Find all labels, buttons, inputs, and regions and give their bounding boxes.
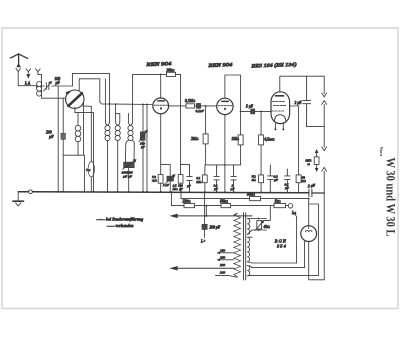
svg-text:200 µF: 200 µF xyxy=(210,226,221,230)
row: cap 0.1uF xyxy=(214,165,219,192)
node dot heater xyxy=(205,215,207,217)
resistor 220 xyxy=(184,204,195,208)
hum pot dots xyxy=(258,218,260,220)
svg-text:REN 904: REN 904 xyxy=(207,63,233,69)
bus connector circle xyxy=(29,190,33,194)
secondary heater winding xyxy=(247,219,252,235)
row: cap 0.2uF xyxy=(268,165,273,192)
antenna jack A xyxy=(16,68,21,71)
V3 grid dashes mid xyxy=(274,105,286,107)
V2 anode loop xyxy=(225,75,241,111)
wire jog below tuner xyxy=(63,155,84,192)
dot coupling node xyxy=(142,104,144,106)
svg-text:1MΩ: 1MΩ xyxy=(232,137,240,141)
wire pot to bus xyxy=(128,168,130,192)
tap 220 long arrow xyxy=(176,267,233,269)
svg-text:1kΩ: 1kΩ xyxy=(275,200,281,204)
svg-text:Nora: Nora xyxy=(379,147,384,157)
node dot xyxy=(240,111,242,113)
svg-text:2 µF: 2 µF xyxy=(295,101,303,105)
lamp cap 200uF xyxy=(204,192,206,237)
ground symbol xyxy=(17,192,19,201)
resistor 1k xyxy=(274,204,286,208)
svg-text:4Ω: 4Ω xyxy=(252,178,257,182)
taps 120 xyxy=(217,252,233,254)
wire 2M to rail xyxy=(205,144,207,165)
svg-text:200: 200 xyxy=(46,131,52,135)
svg-text:MΩ: MΩ xyxy=(195,180,202,184)
node dot xyxy=(224,164,226,166)
jack Ta oval xyxy=(88,162,94,177)
wire L4 bottom leads xyxy=(125,143,134,162)
speaker branch cap 2uF xyxy=(303,76,311,126)
detector coil LA2 xyxy=(75,113,81,156)
IF coil L3 xyxy=(115,104,120,192)
bus series cap 2uF xyxy=(309,189,312,196)
row1 wire xyxy=(171,205,288,207)
secondary lead 2 xyxy=(251,241,304,268)
resistor 1M wire xyxy=(240,111,242,164)
jack middle xyxy=(26,69,31,74)
V1 cathode dot xyxy=(160,107,162,109)
ground bus xyxy=(18,192,308,193)
svg-text:120: 120 xyxy=(220,249,225,253)
primary top lead xyxy=(235,213,238,216)
row1 to heater drop xyxy=(205,206,207,216)
tube V1 REN904 xyxy=(153,98,169,114)
transformer primary zigzag xyxy=(234,213,241,276)
svg-text:pF: pF xyxy=(55,81,61,85)
svg-text:REN 904: REN 904 xyxy=(145,62,172,68)
wire antenna to coil xyxy=(18,72,36,86)
svg-text:3 5 4: 3 5 4 xyxy=(277,244,287,249)
hum pot box xyxy=(252,206,270,230)
dot row2 at rect riser xyxy=(308,198,310,200)
grid leak 2M wire xyxy=(205,106,207,134)
coupling wire to output xyxy=(241,110,271,112)
tuning cap second stator lead xyxy=(83,104,85,156)
trimmer arrow xyxy=(139,130,148,141)
resistor 2M xyxy=(203,134,208,144)
cathode rail xyxy=(161,165,171,177)
wire trimmer ground drop xyxy=(57,86,59,192)
grid wire to tube 1 xyxy=(100,102,153,105)
resistor 50k b xyxy=(221,204,231,208)
jack E xyxy=(36,69,41,72)
speaker jack upper pair xyxy=(322,76,327,126)
V3 grid dashes xyxy=(272,101,284,103)
svg-text:50kΩ: 50kΩ xyxy=(220,200,228,204)
svg-text:L A: L A xyxy=(24,82,31,86)
svg-text:µF: µF xyxy=(141,145,145,149)
secondary bottom winding xyxy=(247,265,251,275)
V3 grid right lead xyxy=(290,106,299,175)
V1 grid dashes xyxy=(154,104,168,106)
wire to bus xyxy=(298,183,300,193)
potentiometer arrow xyxy=(123,160,136,170)
antenna arrow xyxy=(17,64,20,67)
tuning capacitor rotor bar xyxy=(68,93,82,106)
primary bottom lead xyxy=(215,275,237,277)
wire L2 top xyxy=(104,79,106,121)
V2 grid dashes xyxy=(218,105,232,107)
transformer core xyxy=(244,213,246,280)
avc vertical xyxy=(146,104,148,191)
wire tuning cap bottom xyxy=(75,107,94,192)
node dot bus xyxy=(286,192,288,194)
wire trimmer to node xyxy=(52,85,73,87)
svg-text:220: 220 xyxy=(220,263,225,267)
resistor 20k xyxy=(167,72,176,76)
svg-text:5 µF: 5 µF xyxy=(246,105,254,109)
wire B+ drop to L4 xyxy=(132,74,134,121)
row2 riser xyxy=(180,192,182,199)
svg-text:40Ω: 40Ω xyxy=(264,225,271,229)
capacitor 200uF line xyxy=(62,98,64,192)
V3 dashes low xyxy=(272,110,284,112)
svg-text:2MΩ: 2MΩ xyxy=(191,137,199,141)
svg-text:50kΩ: 50kΩ xyxy=(247,193,255,197)
svg-text:150: 150 xyxy=(220,256,225,260)
resistor 5k jack xyxy=(314,157,319,165)
jack lower pair xyxy=(322,127,327,193)
antenna coil L1 xyxy=(37,72,42,98)
node dot anode xyxy=(160,74,162,76)
svg-text:240: 240 xyxy=(220,270,225,274)
row: cap 1uF xyxy=(231,165,236,192)
IF coil L4 xyxy=(126,113,135,143)
B+ line with 20k resistor xyxy=(133,74,181,191)
svg-text:kΩ: kΩ xyxy=(302,179,306,183)
wire coil bottom to tuning cap xyxy=(42,97,66,99)
trimmer capacitor 100pF xyxy=(44,82,52,91)
V1 anode bar xyxy=(158,100,164,102)
switch diagonal xyxy=(292,210,296,216)
wire outer loop top xyxy=(72,73,109,121)
V1 anode wire xyxy=(160,74,162,98)
resistor 0.1M xyxy=(186,104,195,108)
resistor 1M xyxy=(238,135,243,145)
wire coil to trimmer xyxy=(42,85,45,87)
V3 pins xyxy=(275,124,283,129)
svg-text:2 µF: 2 µF xyxy=(163,183,169,187)
resistor 7-4ohm lower xyxy=(259,175,264,183)
IF coil L2 xyxy=(105,121,110,192)
svg-text:T a: T a xyxy=(86,168,91,172)
row: cap 0.1uF b xyxy=(285,169,290,193)
tube V3 RES164 envelope xyxy=(271,92,290,124)
connector circle xyxy=(288,204,293,209)
secondary HV winding xyxy=(247,237,252,263)
resistor 0.5M xyxy=(259,135,264,145)
svg-text:220Ω: 220Ω xyxy=(183,200,191,204)
jack middle arrow xyxy=(27,75,30,78)
pot arrow xyxy=(166,175,175,184)
riser to rectifier top xyxy=(308,199,310,226)
svg-text:MΩ µF: MΩ µF xyxy=(172,187,183,191)
svg-text:—·— bei Sonderausführung: —·— bei Sonderausführung xyxy=(96,216,144,221)
wire tuning cap right lead xyxy=(83,106,92,161)
grid trimmer T1 wire xyxy=(142,104,144,191)
tuning capacitor wedge xyxy=(66,91,71,95)
V2 cathode dot xyxy=(224,108,226,110)
row2 wire xyxy=(181,198,309,200)
rectifier filament xyxy=(305,226,312,232)
hum pot arrow xyxy=(255,221,264,231)
resistor 50k g xyxy=(296,175,301,183)
coupling cap C g2 xyxy=(195,105,217,107)
coupling cap 5uF xyxy=(251,109,255,114)
speaker loop bottom xyxy=(307,126,325,128)
node dot xyxy=(109,103,111,105)
grid2 coupling: wire V1 to resistor xyxy=(169,105,186,107)
row: resistor under rail xyxy=(204,165,206,192)
svg-text:µF: µF xyxy=(49,135,54,139)
V3 anode bar xyxy=(276,95,284,97)
wire to bus xyxy=(260,183,262,192)
grid leak 0.5M wire xyxy=(260,111,262,174)
V3 filament xyxy=(275,115,286,121)
wire R to bus xyxy=(160,183,162,192)
node dot row1 xyxy=(205,205,207,207)
secondary lead 1 xyxy=(252,217,296,263)
tube V2 REN904 xyxy=(217,98,233,114)
svg-text:20kΩ: 20kΩ xyxy=(167,68,175,72)
capacitor 200uF body xyxy=(61,133,65,139)
taps 150 xyxy=(217,259,233,261)
node dot xyxy=(115,103,117,105)
resistor x180 row xyxy=(178,175,183,184)
grid trimmer T1 xyxy=(140,132,145,141)
svg-text:—— vorhanden: —— vorhanden xyxy=(106,223,133,228)
antenna xyxy=(10,54,27,65)
hum pot xyxy=(257,221,262,229)
bus end xyxy=(312,192,324,194)
svg-text:µF µF: µF µF xyxy=(123,175,133,179)
resistor 50k row2 xyxy=(250,197,261,201)
wire Ta to bus xyxy=(90,177,92,192)
wire L3 second lead xyxy=(116,114,120,122)
V3 anode to top line xyxy=(280,76,324,92)
secondary lead 3 xyxy=(251,204,319,275)
bus junction dots xyxy=(57,191,59,193)
svg-text:µF: µF xyxy=(187,184,191,188)
potentiometer 100/500 xyxy=(124,162,135,168)
rectifier tube RGN354 xyxy=(301,226,317,242)
wire pot to bus xyxy=(169,181,171,192)
cap row x189 xyxy=(181,165,193,192)
resistor R cathode xyxy=(158,175,163,184)
V2 cathode wire xyxy=(224,115,226,192)
svg-text:W 30 und W 30 L: W 30 und W 30 L xyxy=(384,158,398,237)
pot volume xyxy=(167,176,174,181)
cathode rail 2 xyxy=(206,164,241,166)
wire inner loop top xyxy=(79,79,100,102)
V2 anode bar xyxy=(222,100,228,102)
heater arrow row xyxy=(176,215,252,217)
jack resistor leads xyxy=(316,151,318,169)
V1 cathode wire xyxy=(160,114,162,175)
row1 below bus: riser xyxy=(170,192,172,206)
tuning capacitor C1 xyxy=(66,90,84,108)
rectifier bottom lead xyxy=(309,193,325,280)
